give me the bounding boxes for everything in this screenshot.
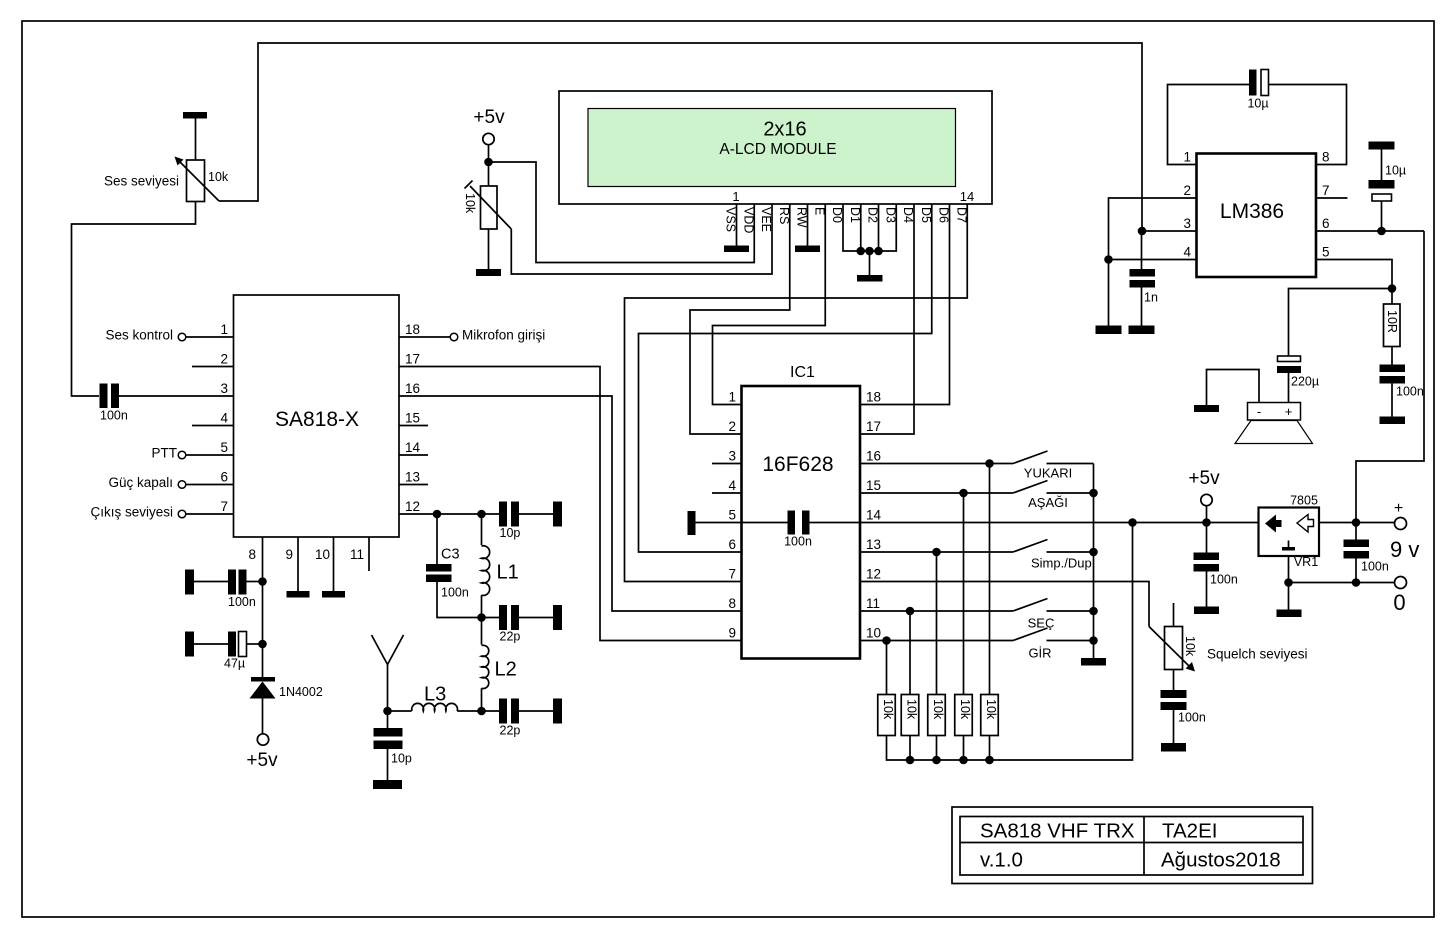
svg-text:v.1.0: v.1.0 xyxy=(980,849,1023,872)
node pin16 xyxy=(985,459,994,468)
terminal + 9v xyxy=(1395,518,1407,530)
svg-text:17: 17 xyxy=(866,419,881,434)
svg-text:18: 18 xyxy=(866,390,881,405)
wire / ground squelch xyxy=(1173,710,1175,743)
inductor L2 xyxy=(481,618,483,645)
wire pulldown column pin13 xyxy=(936,552,938,695)
pin 18 SA818 Mikrofon girisi xyxy=(399,336,450,338)
svg-text:E: E xyxy=(812,207,826,215)
pin 1 SA818 Ses kontrol xyxy=(186,336,234,338)
wire pot bottom to coupling cap xyxy=(72,202,196,397)
node pin3 / audio in xyxy=(1138,227,1147,236)
potentiometer contrast wiper xyxy=(470,186,511,229)
node +5v rail / pullup column xyxy=(1128,518,1137,527)
svg-text:1: 1 xyxy=(220,322,228,337)
svg-text:A-LCD MODULE: A-LCD MODULE xyxy=(719,141,836,158)
ground contrast pot xyxy=(476,269,501,276)
ground RW xyxy=(795,246,820,253)
svg-text:100n: 100n xyxy=(1210,573,1238,587)
potentiometer Ses seviyesi wiper arrow xyxy=(179,161,219,201)
diode 1N4002 xyxy=(251,677,275,682)
svg-text:VSS: VSS xyxy=(724,207,738,232)
wire switch common bus to ground xyxy=(1093,464,1095,659)
svg-text:14: 14 xyxy=(960,189,974,204)
svg-text:7: 7 xyxy=(220,499,228,514)
svg-text:D6: D6 xyxy=(937,207,951,223)
svg-text:220µ: 220µ xyxy=(1291,375,1319,389)
pin 16 IC1 wire YUKARI switch xyxy=(860,463,1013,465)
svg-text:D3: D3 xyxy=(883,207,897,223)
node pin2/pin4 xyxy=(1104,255,1113,264)
svg-text:C3: C3 xyxy=(441,547,460,563)
pin 5 SA818 PTT xyxy=(186,454,234,456)
svg-text:10k: 10k xyxy=(463,193,477,214)
svg-text:+: + xyxy=(1394,500,1403,517)
wire speaker minus to ground xyxy=(1207,370,1260,406)
ground VSS xyxy=(724,246,749,253)
node pin11 xyxy=(906,607,915,616)
node rail r2 xyxy=(906,756,915,765)
svg-text:SA818 VHF TRX: SA818 VHF TRX xyxy=(980,820,1135,843)
wire xyxy=(247,643,263,645)
svg-text:1N4002: 1N4002 xyxy=(279,685,323,699)
wire xyxy=(194,581,228,583)
svg-text:10k: 10k xyxy=(208,170,229,184)
terminal bar 100n bypass xyxy=(185,570,194,595)
svg-text:D5: D5 xyxy=(919,207,933,223)
inductor L1 xyxy=(481,514,483,545)
svg-text:Squelch seviyesi: Squelch seviyesi xyxy=(1207,647,1308,662)
svg-text:100n: 100n xyxy=(1361,560,1389,574)
resistor R array 10k #1 xyxy=(878,695,896,736)
svg-text:AŞAĞI: AŞAĞI xyxy=(1028,495,1068,510)
node D ground stem xyxy=(865,247,874,256)
IC U2 16F628 body xyxy=(742,386,861,659)
node pin6 / 10u xyxy=(1377,227,1386,236)
svg-text:4: 4 xyxy=(220,411,228,426)
svg-text:3: 3 xyxy=(220,381,228,396)
pin 11 IC1 wire SEC switch xyxy=(860,610,1013,612)
pin 5 LM386 output wire xyxy=(1316,260,1392,289)
wire VSS to ground xyxy=(736,204,738,246)
wire D0-D3 to ground xyxy=(843,204,896,251)
wire xyxy=(519,513,553,515)
pin 13 IC1 wire Simp/Dup switch xyxy=(860,551,1013,553)
svg-text:D4: D4 xyxy=(901,207,915,223)
wire pot top xyxy=(195,118,197,160)
node L1 bottom / 22p xyxy=(477,613,486,622)
capacitor 100n 9v input xyxy=(1355,523,1357,540)
node SA818 pin12 / C3 xyxy=(433,510,442,519)
svg-text:10µ: 10µ xyxy=(1247,97,1268,111)
capacitor 100n bypass pin8 xyxy=(228,570,236,595)
pin 16 SA818 wire to IC1 pin8 xyxy=(399,396,742,611)
svg-text:Güç kapalı: Güç kapalı xyxy=(108,475,173,490)
node SA818 pin12 / L1 xyxy=(477,510,486,519)
capacitor 100n rail decoupling xyxy=(1206,523,1208,553)
wire pulldown column pin15 xyxy=(963,493,965,695)
svg-text:1: 1 xyxy=(732,189,739,204)
svg-text:9: 9 xyxy=(285,547,293,562)
svg-text:13: 13 xyxy=(866,537,881,552)
svg-text:9: 9 xyxy=(728,626,736,641)
pin 7 SA818 Cikis seviyesi xyxy=(186,513,234,515)
svg-text:5: 5 xyxy=(728,508,736,523)
node 0 rail / 100n xyxy=(1352,578,1361,587)
svg-text:12: 12 xyxy=(405,499,420,514)
svg-text:+5v: +5v xyxy=(1188,468,1220,489)
wire xyxy=(247,581,263,583)
potentiometer squelch wiper arrow xyxy=(1149,627,1189,667)
svg-text:100n: 100n xyxy=(1396,385,1424,399)
svg-text:17: 17 xyxy=(405,352,420,367)
node pin13 xyxy=(932,548,941,557)
potentiometer squelch 10k body xyxy=(1173,603,1175,627)
svg-text:PTT: PTT xyxy=(152,446,178,461)
wire C3 top xyxy=(436,514,438,564)
svg-text:D0: D0 xyxy=(830,207,844,223)
svg-text:L2: L2 xyxy=(495,659,517,681)
terminal bar 10u supply cap xyxy=(1369,142,1395,150)
wire resistor bottoms to +5v rail xyxy=(887,523,1133,761)
svg-text:D1: D1 xyxy=(848,207,862,223)
pin 15 IC1 wire ASAGI switch xyxy=(860,492,1013,494)
node pin15 xyxy=(959,489,968,498)
pin 2 LM386 wire xyxy=(1109,198,1197,326)
switch GIR xyxy=(1013,628,1048,641)
svg-text:SA818-X: SA818-X xyxy=(275,408,359,431)
pin 17 SA818 wire to IC1 pin9 xyxy=(399,367,742,641)
svg-text:YUKARI: YUKARI xyxy=(1024,466,1072,481)
svg-text:2x16: 2x16 xyxy=(763,119,806,141)
node bus GIR xyxy=(1089,636,1098,645)
switch ASAGI xyxy=(1013,481,1048,494)
pin 9 SA818 ground xyxy=(297,537,299,591)
pin 10 IC1 wire GIR switch xyxy=(860,640,1013,642)
svg-text:2: 2 xyxy=(728,419,736,434)
svg-text:22p: 22p xyxy=(500,630,521,644)
svg-text:4: 4 xyxy=(728,478,736,493)
node pin8/47u xyxy=(258,640,267,649)
wire D5 to IC1 pin6 xyxy=(639,204,932,552)
wire VEE to contrast wiper xyxy=(511,204,772,274)
wire RS to IC1 pin2 xyxy=(690,204,790,434)
switch Simp./Dup. xyxy=(1013,540,1048,553)
pin 8 SA818 wire down xyxy=(262,537,264,677)
node rail r3 xyxy=(932,756,941,765)
node bus SimpDup xyxy=(1089,548,1098,557)
pin 14 SA818 stub xyxy=(399,454,428,456)
pin 4 LM386 wire xyxy=(1109,259,1197,261)
pin 2 SA818 stub xyxy=(192,366,234,368)
svg-text:8: 8 xyxy=(1322,150,1330,165)
wire xyxy=(194,643,228,645)
svg-text:L1: L1 xyxy=(497,562,519,584)
capacitor 100n coupling (volume to SA818 pin3) xyxy=(100,384,108,409)
wire pin1-pin8 gain loop xyxy=(1168,85,1250,165)
terminal 0 xyxy=(1395,577,1407,589)
capacitor 10u supply polarized xyxy=(1381,150,1383,181)
pin 12 IC1 wire to squelch wiper xyxy=(860,582,1149,627)
svg-text:VR1: VR1 xyxy=(1294,555,1318,569)
svg-text:16: 16 xyxy=(405,381,420,396)
wire D7 to IC1 pin7 xyxy=(625,204,968,582)
node pin8/100n xyxy=(258,577,267,586)
svg-text:D7: D7 xyxy=(954,207,968,223)
pin 6 SA818 Guc kapali xyxy=(186,484,234,486)
svg-text:47µ: 47µ xyxy=(224,657,245,671)
svg-text:Mikrofon girişi: Mikrofon girişi xyxy=(462,328,545,343)
wire top audio net from volume pot wiper to LM386 pin3 xyxy=(219,43,1142,231)
wire xyxy=(519,617,553,619)
pin 7 LM386 stub xyxy=(1316,197,1348,199)
svg-text:8: 8 xyxy=(728,596,736,611)
ground switch bus xyxy=(1081,658,1106,666)
svg-text:+5v: +5v xyxy=(473,107,505,128)
regulator VR1 7805 body xyxy=(1259,508,1320,557)
capacitor 10p series output xyxy=(499,502,507,527)
7805 arrow out filled xyxy=(1265,515,1282,533)
svg-text:8: 8 xyxy=(248,547,256,562)
wire xyxy=(519,710,553,712)
resistor R array 10k #5 xyxy=(981,695,999,736)
capacitor 100n squelch xyxy=(1161,690,1187,698)
LCD module 2x16 outer xyxy=(559,91,992,204)
svg-text:VEE: VEE xyxy=(759,207,773,232)
svg-text:10: 10 xyxy=(315,547,330,562)
svg-text:IC1: IC1 xyxy=(790,364,815,381)
7805 gnd mark xyxy=(1288,541,1290,548)
capacitor 22p first xyxy=(482,617,500,619)
svg-text:100n: 100n xyxy=(228,595,256,609)
svg-text:Çıkış seviyesi: Çıkış seviyesi xyxy=(90,505,173,520)
pin 11 SA818 stub xyxy=(368,537,370,571)
svg-text:Simp./Dup.: Simp./Dup. xyxy=(1031,556,1095,571)
wire diode to +5v xyxy=(262,699,264,735)
LCD green display area xyxy=(588,109,956,187)
title block inner xyxy=(960,817,1303,876)
svg-text:100n: 100n xyxy=(100,409,128,423)
ground volume pot top bar xyxy=(183,112,207,119)
node 7805 gnd xyxy=(1284,578,1293,587)
svg-text:LM386: LM386 xyxy=(1220,200,1284,223)
potentiometer contrast 10k body xyxy=(481,186,498,229)
svg-text:6: 6 xyxy=(728,537,736,552)
svg-text:VDD: VDD xyxy=(741,207,755,233)
svg-text:16: 16 xyxy=(866,449,881,464)
wire D4 to IC1 pin17 xyxy=(860,204,914,434)
svg-text:100n: 100n xyxy=(1178,711,1206,725)
svg-text:6: 6 xyxy=(220,470,228,485)
wire E to IC1 pin1 xyxy=(713,204,826,405)
pin 15 SA818 stub xyxy=(399,425,428,427)
wire 7805 ground rail to 0 terminal xyxy=(1288,556,1290,610)
svg-text:10k: 10k xyxy=(905,699,919,720)
svg-text:10p: 10p xyxy=(500,526,521,540)
pin 4 IC1 stub xyxy=(712,492,742,494)
wire pulldown column pin11 xyxy=(909,611,911,695)
resistor R array 10k #2 xyxy=(901,695,919,736)
node rail r5 xyxy=(985,756,994,765)
wire pulldown column pin10 xyxy=(886,641,888,695)
wire / ground rail 100n xyxy=(1206,572,1208,607)
node pin10 xyxy=(882,636,891,645)
speaker xyxy=(1248,403,1301,421)
node 9v plus xyxy=(1352,518,1361,527)
svg-text:10k: 10k xyxy=(984,699,998,720)
potentiometer Ses seviyesi 10k body xyxy=(187,160,205,202)
svg-text:-: - xyxy=(1257,404,1261,419)
resistor R array 10k #3 xyxy=(928,695,946,736)
node antenna xyxy=(383,707,392,716)
svg-text:1: 1 xyxy=(728,390,736,405)
wire D6 to IC1 pin18 xyxy=(860,204,950,405)
LCD pin stubs and labels VSS..D7 xyxy=(724,207,969,233)
svg-text:2: 2 xyxy=(1183,183,1191,198)
node L2/L3/22p xyxy=(477,707,486,716)
capacitor 10u gain polarized xyxy=(1249,70,1257,96)
capacitor 22p second xyxy=(482,710,500,712)
svg-text:7: 7 xyxy=(1322,183,1330,198)
resistor R array 10k #4 xyxy=(955,695,973,736)
svg-text:3: 3 xyxy=(728,449,736,464)
svg-text:10µ: 10µ xyxy=(1385,164,1406,178)
svg-text:100n: 100n xyxy=(784,535,812,549)
wire contrast pot to ground xyxy=(488,229,490,269)
ground speaker xyxy=(1194,405,1219,412)
svg-text:+5v: +5v xyxy=(246,750,278,771)
pin 6 LM386 supply wire xyxy=(1316,230,1424,232)
svg-text:+: + xyxy=(1285,404,1293,419)
wire RW to ground xyxy=(807,204,809,246)
svg-text:10k: 10k xyxy=(1183,636,1197,657)
resistor 10R zobel xyxy=(1391,289,1393,305)
svg-text:Ağustos2018: Ağustos2018 xyxy=(1161,849,1281,872)
ground 7805 xyxy=(1277,610,1302,618)
svg-text:18: 18 xyxy=(405,322,420,337)
capacitor C3 100n xyxy=(426,564,452,572)
svg-text:14: 14 xyxy=(866,508,882,523)
node bus ASAGI xyxy=(1089,489,1098,498)
capacitor 220u polarized xyxy=(1278,356,1301,362)
svg-text:12: 12 xyxy=(866,567,881,582)
svg-text:5: 5 xyxy=(220,440,228,455)
inductor L3 xyxy=(388,710,412,712)
wire / ground antenna cap xyxy=(387,749,389,780)
svg-text:16F628: 16F628 xyxy=(762,453,833,476)
pin 13 SA818 stub xyxy=(399,484,428,486)
node rail r4 xyxy=(959,756,968,765)
svg-text:RW: RW xyxy=(795,207,809,228)
svg-text:22p: 22p xyxy=(500,724,521,738)
wire +5v rail pin14 to 7805 xyxy=(860,522,1259,524)
wire cap to SA818 pin3 xyxy=(119,395,234,397)
pin 3 LM386 wire xyxy=(1142,230,1197,232)
pin 12 SA818 RF output wire xyxy=(399,513,499,515)
terminal bar RF bottom xyxy=(553,699,562,724)
svg-text:10: 10 xyxy=(866,626,881,641)
svg-text:15: 15 xyxy=(866,478,881,493)
capacitor 1n pin3 xyxy=(1141,231,1143,269)
capacitor 100n decoupling IC1 xyxy=(788,511,796,535)
svg-text:14: 14 xyxy=(405,440,421,455)
capacitor 47u polarized xyxy=(228,632,236,657)
svg-text:5: 5 xyxy=(1322,245,1330,260)
wire 7805 out to plus terminal xyxy=(1319,522,1395,524)
svg-text:Ses kontrol: Ses kontrol xyxy=(105,328,173,343)
terminal bar IC1 pin5 xyxy=(688,511,696,535)
node +5v / VDD xyxy=(484,158,493,167)
svg-text:10p: 10p xyxy=(391,752,412,766)
node output / 10R xyxy=(1388,284,1397,293)
svg-text:GİR: GİR xyxy=(1028,646,1051,661)
wire output to 220u xyxy=(1289,289,1393,357)
capacitor 100n zobel xyxy=(1391,347,1393,365)
node bus SEC xyxy=(1089,607,1098,616)
svg-text:1n: 1n xyxy=(1144,291,1158,305)
wire 220u to speaker xyxy=(1288,373,1290,403)
node +5v circle / rail xyxy=(1202,518,1211,527)
svg-text:D2: D2 xyxy=(866,207,880,223)
svg-text:4: 4 xyxy=(1183,245,1191,260)
wire pin5 through IC to pin14 xyxy=(696,522,788,524)
wire squelch bottom to 100n xyxy=(1173,670,1175,691)
svg-text:10R: 10R xyxy=(1385,310,1399,333)
svg-text:10k: 10k xyxy=(958,699,972,720)
terminal bar RF out top xyxy=(553,502,562,527)
svg-text:0: 0 xyxy=(1393,590,1405,615)
svg-text:9 v: 9 v xyxy=(1390,537,1419,562)
wire pulldown column pin16 xyxy=(989,464,991,695)
op-amp U3 LM386 body xyxy=(1197,154,1317,278)
node D2 xyxy=(874,247,883,256)
svg-text:13: 13 xyxy=(405,470,420,485)
wire / ground zobel xyxy=(1391,384,1393,417)
svg-text:10k: 10k xyxy=(881,699,895,720)
terminal bar RF mid xyxy=(553,605,562,630)
svg-text:Ses seviyesi: Ses seviyesi xyxy=(104,174,179,189)
svg-text:L3: L3 xyxy=(424,684,446,706)
wire C3 bottom xyxy=(437,582,482,618)
svg-text:6: 6 xyxy=(1322,216,1330,231)
terminal bar 47u xyxy=(185,632,194,657)
ground pin2/4 xyxy=(1096,326,1122,335)
ground D0-D3 xyxy=(857,275,883,282)
svg-text:11: 11 xyxy=(866,596,880,611)
wire VDD to +5v xyxy=(489,162,755,263)
svg-text:100n: 100n xyxy=(441,586,469,600)
title block outer xyxy=(952,807,1313,884)
wire / ground 1n xyxy=(1141,288,1143,326)
svg-text:TA2EI: TA2EI xyxy=(1162,820,1217,843)
switch SEC xyxy=(1013,599,1048,612)
pin 10 SA818 ground xyxy=(333,537,335,591)
switch YUKARI xyxy=(1013,451,1048,464)
svg-text:SEÇ: SEÇ xyxy=(1028,616,1055,631)
antenna xyxy=(372,635,404,665)
node D1 xyxy=(856,247,865,256)
svg-text:1: 1 xyxy=(1183,150,1191,165)
pin 3 IC1 stub xyxy=(712,463,742,465)
svg-text:7805: 7805 xyxy=(1290,494,1318,508)
svg-text:7: 7 xyxy=(728,567,736,582)
svg-text:11: 11 xyxy=(350,547,364,562)
svg-text:15: 15 xyxy=(405,411,420,426)
wire pin6 down to 9v plus xyxy=(1356,231,1424,523)
terminal +5v SA818 supply xyxy=(257,734,268,745)
svg-text:10k: 10k xyxy=(931,699,945,720)
svg-text:2: 2 xyxy=(220,352,228,367)
